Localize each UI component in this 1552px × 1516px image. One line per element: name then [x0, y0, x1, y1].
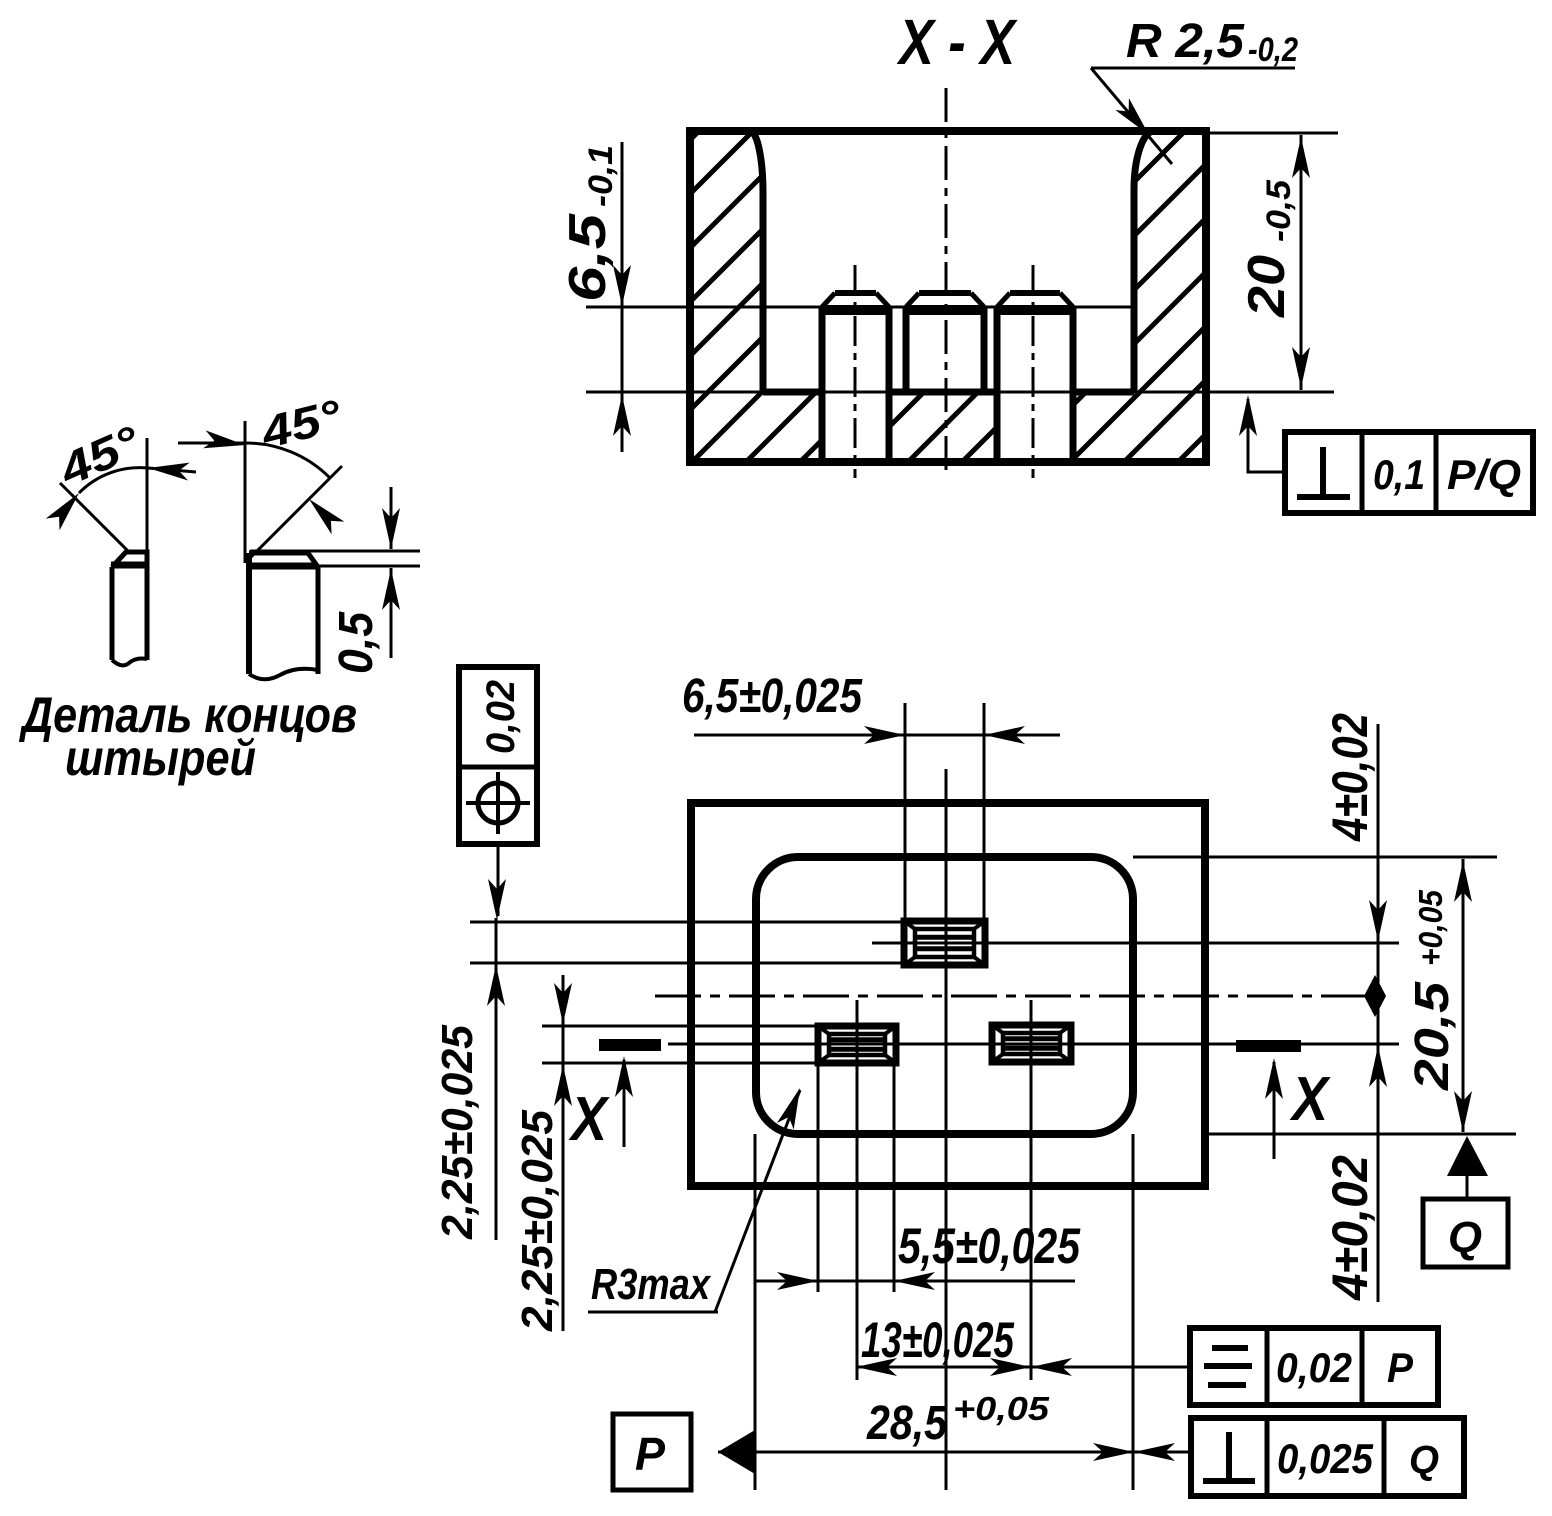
svg-text:0,02: 0,02: [479, 680, 523, 754]
hole A top edge extension line to the left: [470, 921, 904, 924]
svg-text:+0,05: +0,05: [1412, 889, 1449, 966]
section view pin-top level extension line (6,5 upper): [586, 306, 1134, 309]
svg-text:13±0,025: 13±0,025: [861, 1312, 1015, 1368]
position symbol: [478, 783, 518, 823]
section plane mark X left: thick stroke: [599, 1039, 661, 1051]
svg-text:4±0,02: 4±0,02: [1322, 713, 1378, 842]
hole A right edge extension line upward: [983, 703, 986, 921]
section plane mark X right: thick stroke: [1236, 1040, 1301, 1052]
hole B top edge extension line to the left: [542, 1025, 818, 1028]
contact pin 3 in section (through bottom slab): [994, 307, 1001, 462]
hole A bottom edge extension line to the left: [470, 962, 904, 965]
second pin angle arc with arrows: [178, 443, 330, 478]
plan view outer body outline: [691, 803, 1205, 1186]
pin column C centre extension downward: [1030, 1000, 1033, 1380]
dimension 2,25+-0,025 for holes B,C (left): [562, 975, 565, 1331]
svg-text:+0,05: +0,05: [953, 1390, 1050, 1427]
cavity right edge extension downward: [1132, 1134, 1135, 1490]
vertical centre line of plan view: [945, 769, 948, 1490]
svg-text:штырей: штырей: [65, 730, 256, 786]
section view cavity left wall inner edge with R2,5 fillet: [750, 131, 763, 392]
svg-text:0,5: 0,5: [330, 611, 383, 674]
svg-text:2,25±0,025: 2,25±0,025: [433, 1024, 482, 1239]
svg-text:6,5: 6,5: [559, 213, 617, 302]
section view outer body outline: [690, 131, 1206, 462]
position tolerance frame 0,02 (vertical): [459, 667, 537, 844]
chamfer land extension lines (0,5): [250, 550, 420, 553]
svg-text:P: P: [635, 1428, 665, 1480]
first pin extension line up: [146, 438, 149, 552]
hole A horizontal centre line: [872, 942, 1399, 945]
dimension 20,5+0,05 (cavity height): [1462, 859, 1465, 1132]
second pin vertical extension line: [244, 421, 247, 563]
svg-text:P: P: [1387, 1344, 1414, 1391]
dimension 6,5+-0,025 (hole A length): [694, 734, 1060, 737]
hole A left edge extension line upward: [904, 703, 907, 921]
svg-text:R3max: R3max: [591, 1260, 711, 1309]
svg-text:20: 20: [1238, 255, 1296, 318]
svg-text:X: X: [1289, 1065, 1331, 1134]
svg-text:0,1: 0,1: [1373, 451, 1425, 498]
perpendicularity symbol: [1320, 447, 1326, 497]
parallelism symbol (three bars): [1212, 1345, 1248, 1351]
svg-text:4±0,02: 4±0,02: [1322, 1155, 1378, 1301]
pin end detail, second pin body: [249, 553, 318, 674]
svg-text:X - X: X - X: [897, 6, 1018, 78]
svg-text:R 2,5: R 2,5: [1126, 15, 1245, 68]
bottom pin row centre line: [668, 1043, 1399, 1046]
svg-text:0,025: 0,025: [1277, 1435, 1374, 1482]
main vertical centre line of section: [945, 88, 948, 478]
hole B left edge extension line downward: [817, 1063, 820, 1292]
feature control frame: perpendicularity 0,1 P/Q: [1285, 432, 1533, 513]
feature control frame: perpendicularity 0,025 Q: [1191, 1418, 1464, 1496]
pin hole C (bottom right) plan outline: [992, 1025, 1071, 1062]
dimension 13+-0,025 (pin spacing): [856, 1366, 1193, 1369]
dimension 0,5 (chamfer land): [390, 487, 393, 549]
section plane mark X right: view arrow: [1273, 1062, 1276, 1159]
first pin angle arc with arrows: [79, 468, 196, 493]
section view cavity floor extension line: [586, 391, 1334, 394]
second pin 45-degree chamfer line: [247, 466, 342, 561]
section view top edge extension line (for 20-0,5): [1206, 132, 1338, 135]
leader from frame to floor line: [1248, 399, 1285, 472]
svg-text:Q: Q: [1409, 1438, 1439, 1482]
cavity left edge extension downward: [754, 1134, 757, 1490]
svg-text:-0,2: -0,2: [1248, 31, 1298, 69]
svg-text:28,5: 28,5: [866, 1397, 948, 1450]
svg-text:6,5±0,025: 6,5±0,025: [682, 670, 863, 723]
cavity bottom edge extension to the right: [1205, 1133, 1516, 1136]
svg-text:2,25±0,025: 2,25±0,025: [513, 1109, 562, 1332]
dimension 2,25+-0,025 for hole A (left): [495, 918, 498, 1240]
svg-text:-0,5: -0,5: [1260, 179, 1298, 242]
svg-text:0,02: 0,02: [1276, 1344, 1352, 1391]
svg-text:20,5: 20,5: [1406, 980, 1459, 1091]
leader from position frame down to hole A extension: [497, 844, 500, 916]
horizontal centre line of plan view (dash-dot): [655, 995, 1377, 998]
plan view inner cavity rounded rectangle: [756, 857, 1133, 1134]
section view X-X : hatched body cross-section: [188, 110, 1530, 480]
centre line of pin 1: [854, 265, 857, 478]
svg-text:P/Q: P/Q: [1447, 451, 1521, 499]
first pin 45-degree chamfer line: [60, 483, 130, 553]
pin hole A (top centre) plan outline: [904, 921, 985, 965]
svg-text:X: X: [568, 1085, 610, 1154]
section view cavity right wall inner edge with R2,5 fillet: [1134, 131, 1154, 392]
datum Q triangle on cavity bottom edge: [1447, 1136, 1488, 1176]
pin hole B (bottom left) plan outline: [818, 1026, 896, 1063]
pin end detail, first pin body: [112, 552, 147, 660]
cavity top edge extension to the right: [1133, 856, 1497, 859]
diamond mark at centre line end: [1364, 975, 1386, 1017]
dimension 5,5+-0,025 (hole B length): [754, 1280, 1075, 1283]
feature control frame: parallelism 0,02 P: [1190, 1328, 1438, 1405]
pin column B centre extension downward: [856, 1000, 859, 1380]
dimension 20-0,5 (body height): [1300, 135, 1303, 390]
section plane mark X left: view arrow: [623, 1060, 626, 1147]
perpendicularity symbol: [1226, 1432, 1232, 1481]
datum Q box: [1423, 1199, 1508, 1267]
dimension 6,5-0,1 (pin protrusion height): [621, 142, 624, 452]
hole B bottom edge extension line to the left: [542, 1062, 818, 1065]
section view cavity floor thick segments: [763, 389, 822, 396]
contact pin 1 in section (through bottom slab): [819, 307, 826, 462]
dimension 28,5+0,05 (cavity width) with datum P: [718, 1451, 1134, 1454]
datum P box: [613, 1414, 691, 1490]
centre line of pin 3: [1032, 265, 1035, 478]
svg-text:-0,1: -0,1: [582, 145, 620, 207]
contact pin 2 in section (rests on cavity floor): [903, 307, 910, 392]
dimension 4+-0,02 upper right: [1377, 724, 1380, 1302]
svg-text:Q: Q: [1448, 1213, 1482, 1262]
hole B right edge extension line downward: [893, 1063, 896, 1292]
svg-text:5,5±0,025: 5,5±0,025: [898, 1218, 1081, 1274]
